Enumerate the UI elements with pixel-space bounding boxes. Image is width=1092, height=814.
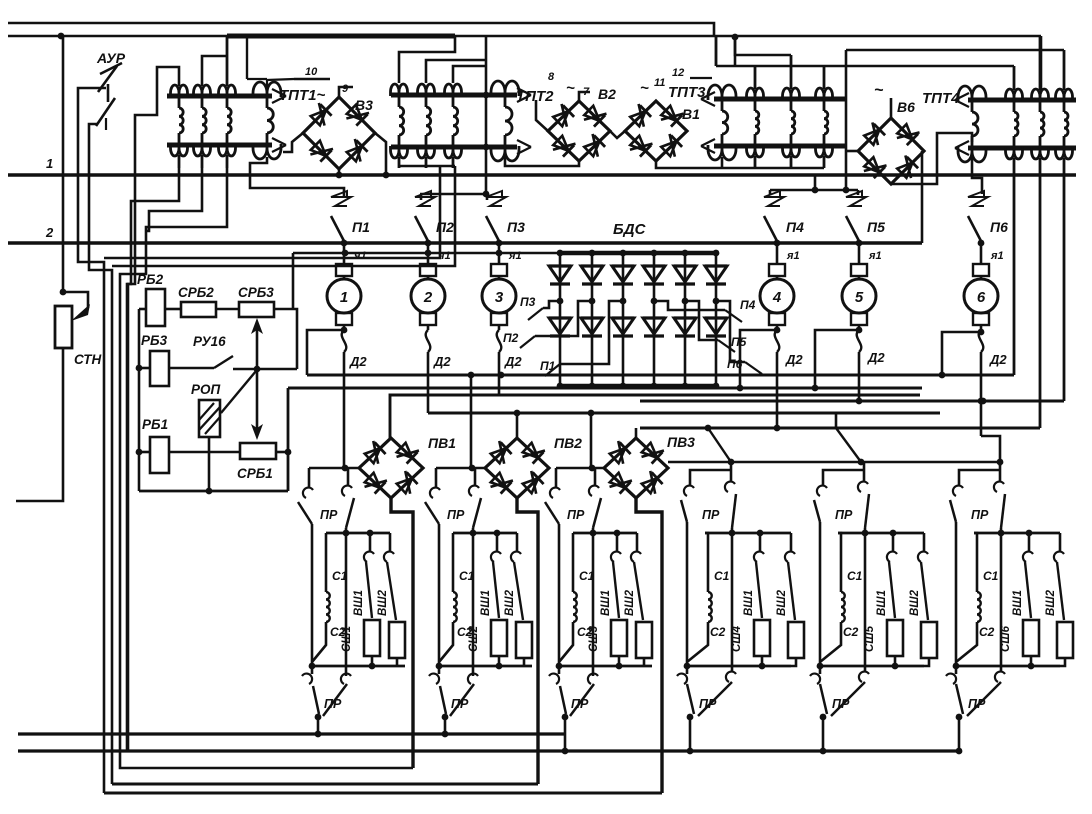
wire P2 P3 top link: [420, 194, 487, 200]
wire V3 left corner link: [283, 133, 303, 152]
wire AUR tap B: [89, 124, 112, 784]
group6 label VSh1: [1012, 590, 1024, 616]
switch AUR contact 2: [96, 98, 115, 130]
svg-text:СШ1: СШ1: [341, 626, 353, 652]
transformer TPT3 bus lower: [701, 139, 846, 153]
wire top rail T2: [8, 33, 1041, 41]
group2 label PR top: [447, 508, 465, 522]
wire BDS tap col6: [716, 301, 745, 362]
group5 label VSh1: [876, 590, 888, 616]
group3 wire PR bottom to rail: [562, 714, 569, 755]
group5 switch VSh1: [887, 533, 897, 618]
wire T1 corner down right: [1040, 36, 1043, 92]
svg-text:ВШ2: ВШ2: [1045, 589, 1057, 616]
transformer TPT4 winding 3: [1056, 50, 1073, 401]
svg-text:РОП: РОП: [191, 382, 221, 397]
group4 label VSh1: [743, 590, 755, 616]
wire TPT3 winding tops: [716, 36, 824, 66]
svg-text:П3: П3: [507, 219, 525, 235]
contact D2 motor6: [978, 330, 985, 436]
group1 contact PR bottom left hook: [302, 666, 312, 684]
svg-text:~: ~: [874, 82, 884, 99]
wire motor6 to group6 node: [981, 436, 1000, 466]
label AUR: [96, 50, 126, 66]
group1 wire group node: [309, 465, 358, 472]
label PV1: [428, 435, 456, 451]
wire RU16 node: [233, 366, 297, 373]
wire TPT3 pickup bottom: [721, 157, 724, 168]
group6 contact PR top left hook: [953, 486, 963, 496]
diode BDS 3 upper: [612, 266, 634, 284]
wire RB3 left: [136, 365, 150, 372]
transformer TPT3 winding 2: [783, 55, 800, 168]
group1 wire left hook stub: [308, 468, 311, 488]
wire top rail T1: [8, 23, 714, 36]
wire V3 bottom to bus1: [336, 169, 343, 178]
group4 switch VSh1: [754, 533, 764, 618]
wire PV2 bottom return: [517, 498, 538, 784]
transformer TPT4 pickup winding: [958, 86, 986, 162]
group4 winding C1 C2: [687, 533, 712, 662]
group3 contact PR bottom right hook: [588, 674, 598, 684]
transformer TPT2 winding 2: [418, 84, 435, 168]
wire bundle bottom 4 to PV3: [104, 792, 662, 795]
wire BDS column 2: [589, 250, 596, 390]
group2 wire group node: [436, 465, 485, 472]
transformer TPT3 bus upper: [701, 92, 846, 106]
group6 contact PR bottom left hook: [946, 666, 956, 684]
label TPT1: [279, 87, 325, 104]
svg-text:ПР: ПР: [971, 508, 989, 522]
relay frame right heavy: [287, 388, 290, 491]
group2 contact PR top right blade: [473, 498, 481, 528]
transformer TPT1 winding 2: [194, 85, 211, 168]
wire TPT1 winding2 top: [202, 56, 227, 86]
contact P3 tap: [528, 308, 543, 320]
group4 label PR bottom: [699, 697, 717, 711]
label RU16: [193, 334, 226, 349]
group5 contact PR top right hook: [858, 462, 868, 492]
group1 contact PR top left hook: [303, 488, 313, 498]
label V3: [355, 97, 373, 113]
label V2: [598, 86, 616, 102]
transformer TPT2 bus lower: [391, 140, 531, 154]
group1 label C2: [330, 625, 346, 639]
rectifier bridge PV2: [485, 438, 549, 498]
group5 contact PR top left hook: [817, 486, 827, 496]
svg-text:С1: С1: [332, 569, 348, 583]
label P4 tap: [740, 298, 756, 312]
group2 wire left hook stub: [435, 468, 438, 488]
group3 contact PR top left hook: [550, 488, 560, 498]
label TPT3: [640, 80, 706, 101]
wire V3 top tick: [339, 87, 353, 97]
diode block BDS top bus: [560, 251, 716, 256]
group6 wire PR bottom to rail: [956, 714, 963, 755]
svg-text:П4: П4: [740, 298, 756, 312]
svg-text:Д2: Д2: [433, 354, 451, 369]
group5 resistor SSh-2: [921, 622, 937, 666]
label P5: [867, 219, 885, 235]
wire pin 10 tick: [247, 36, 330, 88]
diode BDS 2 lower: [581, 318, 603, 336]
label P2 tap: [503, 331, 519, 345]
svg-text:Д2: Д2: [504, 354, 522, 369]
label bus 1: [46, 156, 53, 171]
transformer TPT1 pickup winding: [253, 82, 281, 159]
contact P2 tap: [520, 336, 535, 348]
group6 winding C1 C2: [956, 533, 981, 662]
svg-text:ПР: ПР: [447, 508, 465, 522]
label ya1 motor3: [508, 250, 522, 262]
svg-text:ВШ1: ВШ1: [1012, 590, 1024, 616]
wire PV2 feeder: [470, 375, 473, 468]
wire BDS column 1: [557, 250, 564, 390]
wire PV2 top stub: [516, 413, 519, 439]
group1 label C1: [332, 569, 348, 583]
relay RB3: [150, 351, 169, 386]
wire RB2 chain: [139, 308, 239, 311]
group6 label SSh6: [1000, 625, 1012, 652]
svg-text:ВШ1: ВШ1: [480, 590, 492, 616]
svg-text:С2: С2: [979, 625, 995, 639]
svg-text:П1: П1: [352, 219, 370, 235]
wire STN feeder: [60, 36, 67, 295]
diode BDS 1 upper: [549, 266, 571, 284]
svg-text:ПР: ПР: [324, 697, 342, 711]
label ya1 motor1: [353, 250, 367, 262]
svg-text:СРБ1: СРБ1: [237, 466, 273, 481]
wire TPT3 right edge feeder: [845, 50, 848, 190]
svg-text:я1: я1: [786, 250, 800, 262]
wire P6 feed: [972, 157, 982, 194]
relay SRB3: [239, 302, 274, 317]
group1 contact PR bottom right hook: [341, 674, 351, 684]
wire SRB3 right loop: [274, 309, 297, 369]
svg-text:РУ16: РУ16: [193, 334, 226, 349]
svg-text:ТПТ4: ТПТ4: [922, 90, 960, 107]
svg-text:СШ5: СШ5: [864, 625, 876, 652]
group5 contact PR bottom right hook: [859, 672, 869, 682]
rectifier bridge PV1: [359, 438, 423, 498]
label D2 motor2: [433, 354, 451, 369]
group6 label C2: [979, 625, 995, 639]
contactor P5: [842, 191, 876, 330]
svg-text:СШ3: СШ3: [588, 625, 600, 652]
group1 wire group bus lower: [309, 663, 405, 670]
group6 wire group left frame: [955, 522, 958, 666]
label P1: [352, 219, 370, 235]
label D2 motor5: [867, 350, 885, 365]
svg-text:ВШ1: ВШ1: [600, 590, 612, 616]
wire V2 top tick: [579, 92, 590, 101]
group2 contact PR top left blade: [425, 502, 439, 524]
transformer TPT1 bus lower: [167, 138, 286, 152]
svg-text:~: ~: [566, 80, 575, 97]
group1 contact PR top right hook: [342, 486, 352, 496]
wire ROP down: [206, 437, 213, 494]
transformer TPT3 winding 3: [816, 66, 833, 168]
group4 resistor SSh-2: [788, 622, 804, 666]
switch AUR tick: [100, 63, 122, 74]
wire SRB1 right: [276, 449, 291, 456]
svg-text:я1: я1: [990, 250, 1004, 262]
group4 contact PR top left blade: [681, 500, 687, 522]
group3 label C1: [579, 569, 595, 583]
svg-text:П4: П4: [786, 219, 804, 235]
svg-text:П5: П5: [867, 219, 885, 235]
svg-text:ПВ1: ПВ1: [428, 435, 456, 451]
svg-text:ВШ1: ВШ1: [353, 590, 365, 616]
svg-text:~: ~: [640, 80, 649, 97]
group6 wire center vertical: [1000, 528, 1003, 672]
label P6 tap: [727, 357, 743, 371]
group6 wire left hook stub: [959, 470, 1000, 486]
group6 wire group bus lower: [953, 663, 1060, 670]
label P3 tap: [520, 295, 536, 309]
group4 wire PR bottom to rail: [687, 714, 694, 755]
wire motor4 left jog: [737, 327, 781, 392]
wire T2 drop to TPT3: [716, 36, 735, 66]
group6 label VSh2: [1045, 589, 1057, 616]
label P3: [507, 219, 525, 235]
transformer TPT4 bus lower: [955, 141, 1076, 155]
transformer TPT4 winding 1: [1006, 66, 1023, 375]
group1 label SSh1: [341, 626, 353, 652]
label P1 tap: [540, 359, 556, 373]
svg-text:СРБ3: СРБ3: [238, 285, 274, 300]
transformer TPT2 winding 1: [391, 84, 408, 168]
group3 wire group bus upper: [573, 530, 637, 537]
wire diag group5: [836, 413, 861, 462]
contact P4 tap: [725, 310, 742, 322]
group5 resistor SSh-1: [887, 620, 903, 666]
wire PV3 bottom return: [636, 498, 662, 793]
wire band L1: [307, 372, 1014, 379]
group5 wire center vertical: [864, 528, 867, 672]
svg-text:6: 6: [977, 289, 986, 306]
group4 wire group left frame: [686, 522, 689, 666]
diode BDS 5 upper: [674, 266, 696, 284]
diode BDS 6 upper: [705, 266, 727, 284]
label ROP: [191, 382, 221, 397]
svg-text:БДС: БДС: [613, 221, 647, 238]
svg-text:В3: В3: [355, 97, 373, 113]
svg-text:11: 11: [654, 77, 665, 89]
motor 1: [0, 0, 1, 1]
svg-text:ВШ1: ВШ1: [876, 590, 888, 616]
wire BDS column 6: [713, 250, 720, 390]
group5 wire group bus upper: [838, 530, 924, 537]
svg-text:В6: В6: [897, 99, 915, 115]
contact D2 motor4: [775, 330, 780, 428]
svg-text:С2: С2: [843, 625, 859, 639]
wire motor6 left jog: [939, 329, 985, 379]
wire diag group4: [708, 428, 731, 462]
wire P2 P3 feeder: [483, 36, 490, 197]
relay frame bottom: [139, 490, 288, 493]
svg-text:СШ2: СШ2: [468, 625, 480, 652]
group4 label PR top: [702, 508, 720, 522]
group6 switch VSh1: [1023, 533, 1033, 618]
diode block BDS bottom bus: [560, 384, 716, 389]
label TPT2: [516, 80, 575, 105]
contact D2 motor2: [426, 330, 431, 413]
wire BDS top frame: [293, 250, 560, 309]
svg-text:П6: П6: [727, 357, 743, 371]
group3 contact PR top right blade: [593, 498, 601, 528]
contactor P4: [760, 191, 794, 330]
group1 wire group bus upper: [326, 530, 390, 537]
group6 contact PR bottom funnel: [956, 682, 1001, 716]
svg-text:В1: В1: [682, 106, 700, 122]
wire AUR tap A: [78, 88, 106, 793]
group6 contact PR top right hook: [994, 462, 1004, 492]
label ya1 motor4: [786, 250, 800, 262]
label RB1: [142, 417, 168, 432]
svg-text:9: 9: [342, 83, 349, 95]
group2 wire PR bottom to rail: [442, 714, 449, 738]
group1 resistor SSh-1: [364, 620, 380, 666]
rectifier bridge V3: [303, 97, 375, 169]
switch AUR contact 1: [98, 66, 117, 102]
group3 label C2: [577, 625, 593, 639]
group3 switch VSh2: [631, 533, 643, 620]
label RB3: [141, 333, 168, 348]
wire BDS tap col2: [535, 301, 592, 336]
group2 resistor SSh-1: [491, 620, 507, 666]
rheostat STN: [55, 306, 72, 348]
bus 1: [8, 173, 1076, 177]
label pin 7: [583, 86, 590, 98]
wire BDS tap col5: [685, 301, 718, 340]
svg-text:ВШ2: ВШ2: [504, 589, 516, 616]
group1 wire center vertical: [345, 528, 348, 676]
group2 switch VSh2: [511, 533, 523, 620]
diode BDS 5 lower: [674, 318, 696, 336]
wire cluster1 wrap elbow: [146, 168, 202, 231]
group4 wire group bus lower: [684, 663, 791, 670]
wire PV1 bottom return: [391, 498, 413, 768]
group5 switch VSh2: [918, 533, 928, 620]
group5 contact PR bottom funnel: [820, 682, 865, 716]
group2 contact PR bottom right hook: [468, 674, 478, 684]
contact D2 motor1: [342, 330, 347, 468]
wire T2 heavy segment: [227, 34, 455, 39]
group2 winding C1 C2: [439, 533, 457, 662]
wire motor1 left jog: [307, 327, 347, 375]
group2 label C1: [459, 569, 475, 583]
svg-text:Д2: Д2: [867, 350, 885, 365]
group1 contact PR top right blade: [346, 498, 354, 528]
label TPT4: [922, 90, 960, 107]
rectifier bridge V1: [625, 101, 687, 161]
svg-text:я1: я1: [868, 250, 882, 262]
contactor P3: [482, 191, 516, 330]
svg-text:ПВ3: ПВ3: [667, 434, 695, 450]
group3 wire center vertical: [592, 528, 595, 676]
svg-text:2: 2: [423, 289, 433, 306]
group2 wire group bus upper: [453, 530, 517, 537]
group3 contact PR bottom funnel: [560, 684, 594, 716]
group6 resistor SSh-1: [1023, 620, 1039, 666]
wire V3 right corner to bus1: [375, 133, 389, 178]
motor 4: [0, 0, 1, 1]
group4 resistor SSh-1: [754, 620, 770, 666]
wire motor5 left jog: [812, 327, 863, 392]
group3 wire right hook stub: [594, 468, 597, 486]
group3 label VSh1: [600, 590, 612, 616]
svg-text:5: 5: [855, 289, 864, 306]
svg-text:П2: П2: [436, 219, 454, 235]
group4 label SSh4: [731, 625, 743, 652]
relay RB2: [146, 289, 165, 326]
group3 label PR top: [567, 508, 585, 522]
group3 winding C1 C2: [559, 533, 577, 662]
group3 label SSh3: [588, 625, 600, 652]
svg-text:ПР: ПР: [702, 508, 720, 522]
group4 contact PR bottom funnel: [687, 682, 732, 716]
label PV3: [667, 434, 695, 450]
wire band R2: [428, 410, 940, 417]
label ya1 motor5: [868, 250, 882, 262]
group5 wire group left frame: [819, 522, 822, 666]
group5 winding C1 C2: [820, 533, 845, 662]
group1 contact PR bottom funnel: [313, 684, 347, 716]
group4 contact PR bottom left hook: [677, 666, 687, 684]
svg-text:С1: С1: [459, 569, 475, 583]
svg-text:ВШ1: ВШ1: [743, 590, 755, 616]
group4 contact PR top left hook: [684, 486, 694, 496]
svg-text:10: 10: [305, 66, 318, 78]
svg-text:РБ2: РБ2: [137, 272, 164, 287]
group3 switch VSh1: [611, 533, 621, 618]
group5 label VSh2: [909, 589, 921, 616]
diode BDS 4 lower: [643, 318, 665, 336]
wire band L3: [390, 395, 920, 439]
contactor P1: [327, 191, 361, 330]
group3 contact PR top left blade: [545, 502, 559, 524]
label ya1 motor2: [437, 250, 451, 262]
wire V2 bottom link: [505, 157, 579, 166]
contact D2 motor3: [497, 330, 502, 395]
group5 wire left hook stub: [823, 470, 864, 486]
group3 wire left hook stub: [555, 468, 558, 488]
svg-text:СРБ2: СРБ2: [178, 285, 214, 300]
group3 contact PR top right hook: [589, 486, 599, 496]
contact RU16: [169, 356, 233, 368]
label P5 tap: [731, 335, 747, 349]
label pin 10: [305, 66, 318, 78]
svg-text:ПР: ПР: [699, 697, 717, 711]
group1 label PR top: [320, 508, 338, 522]
wire return bundle 1: [104, 166, 455, 258]
svg-text:СТН: СТН: [74, 352, 101, 367]
svg-text:4: 4: [772, 289, 782, 306]
label BDS: [613, 221, 647, 238]
svg-text:ПР: ПР: [567, 508, 585, 522]
group1 switch VSh1: [364, 533, 374, 618]
svg-text:ВШ2: ВШ2: [776, 589, 788, 616]
group2 label VSh1: [480, 590, 492, 616]
svg-text:ТПТ1~: ТПТ1~: [279, 87, 325, 104]
svg-text:П2: П2: [503, 331, 519, 345]
group5 wire group bus lower: [817, 663, 924, 670]
svg-text:П3: П3: [520, 295, 536, 309]
wire V6 ac stub: [874, 82, 891, 118]
wire RB1 left: [136, 449, 150, 456]
wire V6 bottom to TPT4 pickup: [891, 133, 972, 184]
